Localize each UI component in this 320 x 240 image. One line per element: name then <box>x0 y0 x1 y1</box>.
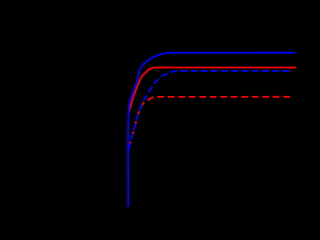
red dashed curve <box>129 97 294 148</box>
blue dashed curve <box>129 71 291 150</box>
blue solid curve <box>128 53 295 207</box>
red solid curve <box>129 68 296 114</box>
